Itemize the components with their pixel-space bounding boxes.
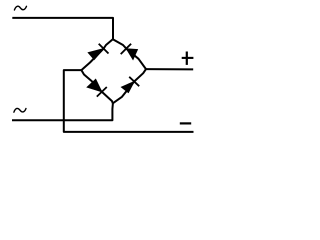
diode D3 on left-bottom edge (triangle + cathode bar): [87, 79, 107, 96]
diode D1 on left-top edge (triangle + cathode bar): [88, 44, 108, 60]
wire: top AC input to top node: [12, 18, 113, 39]
AC source symbol (top tilde): [14, 6, 26, 10]
bridge edge: left node to bottom node: [81, 70, 112, 103]
AC source symbol (bottom tilde): [14, 108, 26, 112]
wire: right node to positive terminal: [146, 68, 193, 70]
bridge edge: bottom node to right node: [113, 69, 146, 103]
wire: left node to negative rail (down and along bottom): [64, 70, 194, 132]
bridge edge: top node to right node: [113, 39, 146, 69]
plus label: [182, 52, 194, 65]
diode D2 on top-right edge (triangle + cathode bar): [121, 44, 138, 60]
bridge edge: left node to top node: [81, 39, 112, 70]
wire: bottom AC input to bottom node: [12, 103, 113, 120]
minus label: [180, 122, 191, 124]
diode D4 on bottom-right edge (triangle + cathode bar): [121, 77, 139, 93]
bridge rectifier schematic: [0, 0, 212, 146]
